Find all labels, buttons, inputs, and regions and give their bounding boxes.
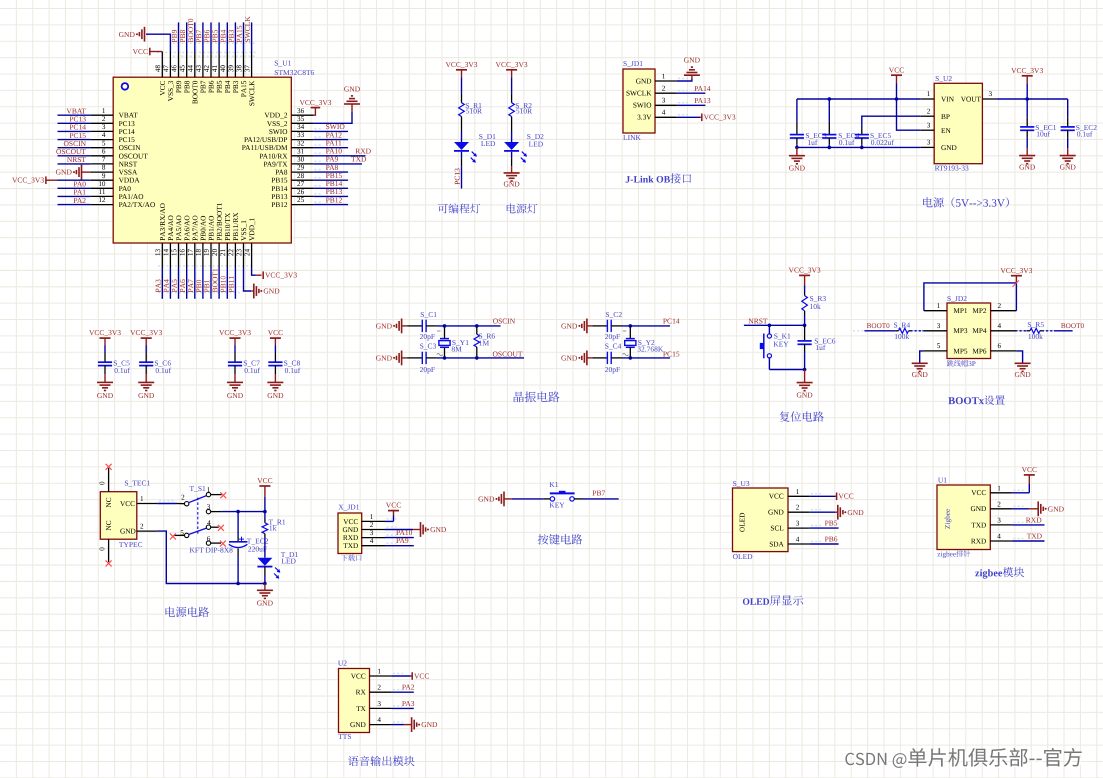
svg-text:2: 2 xyxy=(181,494,185,502)
junction VOUT/VCC_3V3 xyxy=(1025,97,1029,101)
wire net PA0 pin 10 xyxy=(58,187,91,189)
svg-text:GND: GND xyxy=(789,163,806,172)
svg-text:0.1uf: 0.1uf xyxy=(1077,130,1093,139)
svg-text:8: 8 xyxy=(102,164,106,172)
svg-text:3: 3 xyxy=(370,529,374,537)
svg-text:RT9193-33: RT9193-33 xyxy=(935,164,969,173)
wire net SWIO pin 34 xyxy=(314,130,348,132)
wire S_R2 to S_D2 xyxy=(511,132,513,143)
wire net PB5 MCU top xyxy=(218,22,220,51)
svg-text:PA9: PA9 xyxy=(396,536,409,545)
svg-text:4: 4 xyxy=(370,537,374,545)
wire S_EC2 top xyxy=(1067,99,1069,117)
power VCC at X_JD1 pin 1 xyxy=(388,510,399,512)
net label PB1 xyxy=(204,280,209,292)
ground at MCU pin 8 VSSA xyxy=(82,171,91,173)
svg-text:BOOT0: BOOT0 xyxy=(1061,322,1085,330)
X_JD1 pin 1 VCC xyxy=(362,520,385,522)
wire net PB3 MCU top xyxy=(234,22,236,51)
wire net PA15 MCU top xyxy=(243,22,245,51)
MCU pin 17 PA7/AO xyxy=(194,243,196,268)
wire X_JD1 pin2 to ground xyxy=(385,529,413,531)
svg-text:VCC_3V3: VCC_3V3 xyxy=(1000,266,1032,275)
ground at S_JD2 pin 5 xyxy=(912,362,928,364)
svg-text:30: 30 xyxy=(297,156,305,164)
wire PC14 row xyxy=(611,325,622,327)
wire NRST to S_K1 xyxy=(768,325,770,334)
junction VIN/VCC xyxy=(895,97,899,101)
MCU pin 12 PA2/TX/AO xyxy=(90,204,113,206)
wire net PC13 pin 2 xyxy=(58,122,91,124)
svg-text:MP1: MP1 xyxy=(953,306,968,315)
wire TYPEC pin1 to switch xyxy=(157,503,176,505)
ground below S_EC6 xyxy=(797,382,813,384)
svg-text:GND: GND xyxy=(1014,370,1031,379)
svg-text:1k: 1k xyxy=(269,524,277,533)
ground below S_C5 xyxy=(97,381,113,383)
S_U2 pin 3 GND xyxy=(920,146,934,148)
net label PB6 xyxy=(204,30,209,43)
switch T_S1 contact 5 xyxy=(185,533,189,537)
svg-text:RXD: RXD xyxy=(971,536,986,545)
svg-text:GND: GND xyxy=(970,504,986,513)
wire S_U3 pin2 to ground xyxy=(810,511,836,513)
svg-text:GND: GND xyxy=(796,391,813,400)
svg-text:GND: GND xyxy=(120,527,136,536)
wire net PB13 pin 26 xyxy=(314,195,348,197)
power VCC_3V3 at MCU pin 24 VDD_1 xyxy=(262,271,264,279)
S_U2 pin 1 VIN xyxy=(920,98,934,100)
svg-text:3: 3 xyxy=(937,322,941,330)
svg-text:VCC: VCC xyxy=(351,671,366,680)
svg-text:0.022uf: 0.022uf xyxy=(871,138,895,147)
svg-text:VCC_3V3: VCC_3V3 xyxy=(130,328,162,337)
svg-text:PB12: PB12 xyxy=(271,200,288,209)
wire MCU pin 24 to VCC_3V3 xyxy=(252,268,256,275)
svg-text:GND: GND xyxy=(257,598,274,607)
switch T_S1 lever 5-4 xyxy=(189,528,207,534)
wire U1 pin1 to VCC xyxy=(1012,492,1029,494)
junction PC15/crystal xyxy=(629,356,633,360)
no-connect X at T_S1 pin6 xyxy=(220,541,226,547)
svg-text:27: 27 xyxy=(297,180,305,188)
wire net NRST pin 7 xyxy=(58,163,91,165)
resistor S_R2 510R xyxy=(511,93,513,103)
regulator S_U2 body RT9193-33 xyxy=(934,83,982,163)
wire net PA13 xyxy=(677,104,706,106)
svg-text:3: 3 xyxy=(377,700,381,708)
switch T_S1 contact 4 xyxy=(206,525,210,529)
wire T_D1 to bottom rail xyxy=(264,567,266,575)
MCU pin 22 PB11/RX xyxy=(234,243,236,268)
svg-text:GND: GND xyxy=(376,322,393,331)
power VCC_3V3 above S_C5 xyxy=(100,337,111,339)
wire VCC_3V3 to S_R2 xyxy=(511,77,513,93)
ground below S_EC1 xyxy=(1019,155,1035,157)
svg-text:34: 34 xyxy=(297,123,305,131)
svg-text:VCC_3V3: VCC_3V3 xyxy=(299,98,331,107)
svg-text:GND: GND xyxy=(1060,163,1077,172)
power VCC_3V3 at VOUT xyxy=(1022,75,1033,77)
capacitor S_C3 20pF xyxy=(421,352,423,364)
svg-text:0.1uf: 0.1uf xyxy=(285,366,301,375)
svg-text:VCC: VCC xyxy=(386,501,401,510)
wire ground to S_C3 xyxy=(402,357,408,359)
svg-text:GND: GND xyxy=(941,143,957,152)
wire bottom node to ground xyxy=(804,370,806,383)
net label PA7 xyxy=(188,279,193,292)
MCU pin 16 PA6/AO xyxy=(186,243,188,268)
svg-text:2: 2 xyxy=(140,523,144,531)
svg-text:VCC_3V3: VCC_3V3 xyxy=(496,60,528,69)
svg-text:S_C4: S_C4 xyxy=(605,342,622,351)
svg-text:PB6: PB6 xyxy=(825,535,838,544)
power VCC above T_R1 xyxy=(259,485,270,487)
wire ground to K1 xyxy=(504,498,512,500)
title 语音输出模块 xyxy=(348,756,415,766)
svg-text:0.1uf: 0.1uf xyxy=(839,138,855,147)
svg-text:20pF: 20pF xyxy=(420,332,435,341)
svg-text:U2: U2 xyxy=(338,659,347,668)
svg-text:S_JD1: S_JD1 xyxy=(623,59,643,68)
value zigbee排针 xyxy=(938,550,971,558)
svg-text:3: 3 xyxy=(102,123,106,131)
junction LED/bottom rail xyxy=(263,582,267,586)
capacitor S_C6 0.1uf xyxy=(145,353,147,363)
S_JD1 pin 1 GND xyxy=(655,80,677,82)
svg-text:S_R5: S_R5 xyxy=(1027,320,1044,329)
svg-text:STM32C8T6: STM32C8T6 xyxy=(274,68,314,77)
S_TEC1 top NC pin 0 xyxy=(108,468,110,492)
power VCC at MCU pin 48 xyxy=(150,51,163,53)
wire S_JD1 pin 4 to VCC_3V3 xyxy=(677,116,701,118)
title BOOTx设置 xyxy=(948,395,1005,405)
svg-text:U1: U1 xyxy=(938,476,947,485)
svg-text:GND: GND xyxy=(768,508,784,517)
svg-text:GND: GND xyxy=(847,508,864,517)
label Zigbee vertical xyxy=(945,509,952,529)
MCU pin 47 VSS_3 xyxy=(169,52,171,78)
wire VOUT to VCC_3V3 rail xyxy=(997,98,1068,100)
connector U2 body TTS xyxy=(339,669,370,733)
wire U1 pin2 to ground xyxy=(1012,508,1029,510)
MCU pin 5 OSCIN xyxy=(90,147,113,149)
junction OSCIN/crystal xyxy=(443,324,447,328)
svg-text:1: 1 xyxy=(937,302,941,310)
power VCC_3V3 above S_R2 xyxy=(506,69,517,71)
watermark CSDN xyxy=(845,748,1081,768)
junction cap/contact3 xyxy=(236,510,240,514)
svg-text:PA3: PA3 xyxy=(402,699,415,708)
MCU pin 6 OSCOUT xyxy=(90,155,113,157)
wire U2 pin1 to VCC xyxy=(392,675,411,677)
junction OSCOUT/S_R6 xyxy=(475,356,479,360)
MCU pin 10 PA0 xyxy=(90,187,113,189)
svg-text:VCC_3V3: VCC_3V3 xyxy=(704,113,736,122)
svg-text:1: 1 xyxy=(927,90,931,98)
capacitor S_EC5 xyxy=(861,127,863,135)
wire net PB14 pin 27 xyxy=(314,187,348,189)
title J-Link OB接口 xyxy=(626,173,691,183)
power VCC_3V3 at MCU pin 36 VDD_2 xyxy=(314,108,316,116)
capacitor S_EC2 xyxy=(1067,117,1069,127)
wire net PC15 pin 4 xyxy=(58,139,91,141)
svg-text:4: 4 xyxy=(102,131,106,139)
junction OSCIN/S_R6 xyxy=(475,324,479,328)
net label PB11 xyxy=(229,276,234,292)
wire TYPEC pin2 to bottom rail xyxy=(157,531,265,583)
wire GND row xyxy=(797,146,920,148)
net label PB9 xyxy=(172,30,177,42)
wire S_JD2 pin5 to ground xyxy=(920,351,924,363)
svg-text:GND: GND xyxy=(684,56,701,65)
MCU pin 40 PB4 xyxy=(226,52,228,78)
U1 pin 1 VCC xyxy=(990,492,1012,494)
wire S_D2 to ground xyxy=(511,152,513,158)
svg-text:6: 6 xyxy=(207,535,211,543)
capacitor S_C2 20pF xyxy=(606,320,608,332)
MCU pin 11 PA1/AO xyxy=(90,195,113,197)
svg-text:2: 2 xyxy=(377,684,381,692)
wire S_U3 pin1 to VCC xyxy=(810,495,835,497)
svg-text:OSCIN: OSCIN xyxy=(493,316,516,325)
wire net PA8 pin 29 xyxy=(314,171,348,173)
svg-text:32.768K: 32.768K xyxy=(637,345,664,354)
svg-text:VCC_3V3: VCC_3V3 xyxy=(219,328,251,337)
svg-text:1: 1 xyxy=(662,72,666,80)
svg-text:PC15: PC15 xyxy=(663,350,680,359)
MCU pin 1 VBAT xyxy=(90,114,113,116)
svg-text:28: 28 xyxy=(297,172,305,180)
wire BOOT0 left xyxy=(864,330,895,332)
title zigbee模块 xyxy=(975,567,1024,579)
svg-text:NRST: NRST xyxy=(67,155,87,164)
svg-text:33: 33 xyxy=(297,131,305,139)
title 按键电路 xyxy=(538,534,583,545)
jumper S_JD2 body xyxy=(947,303,991,359)
svg-text:PA2/TX/AO: PA2/TX/AO xyxy=(119,200,156,209)
ground at MCU pin 23 VSS_1 xyxy=(253,284,255,299)
wire net PA2 pin 12 xyxy=(58,204,91,206)
svg-text:PA2: PA2 xyxy=(73,196,86,205)
LED T_D1 xyxy=(264,551,266,558)
wire VCC_3V3 to S_C7 xyxy=(234,346,236,353)
svg-text:3: 3 xyxy=(662,97,666,105)
wire net PB15 pin 28 xyxy=(314,179,348,181)
wire S_D1 to PC13 xyxy=(461,152,463,158)
svg-text:VCC_3V3: VCC_3V3 xyxy=(265,271,297,280)
wire net PA2 xyxy=(392,691,414,693)
svg-text:PB7: PB7 xyxy=(592,489,605,498)
wire MCU pin 35 to ground xyxy=(314,112,352,123)
MCU pin 31 PA10/RX xyxy=(291,155,314,157)
wire net PA10 pin 31 xyxy=(314,155,366,157)
svg-text:GND: GND xyxy=(97,391,114,400)
MCU pin 3 PC14 xyxy=(90,130,113,132)
resistor S_R6 1M xyxy=(476,326,478,334)
net label PA5 xyxy=(172,279,177,292)
label OLED vertical xyxy=(740,513,745,532)
svg-text:OLED: OLED xyxy=(733,552,754,561)
capacitor S_C5 0.1uf xyxy=(104,353,106,363)
svg-text:VCC: VCC xyxy=(889,65,904,74)
resistor S_R3 10k xyxy=(804,285,806,291)
wire S_JD1 pin 1 to ground xyxy=(677,79,692,81)
svg-text:EN: EN xyxy=(941,126,951,135)
svg-text:PC14: PC14 xyxy=(663,316,680,325)
wire net SWCLK MCU top xyxy=(251,22,253,51)
S_JD1 pin 4 3.3V xyxy=(655,116,677,118)
MCU pin 29 PA8 xyxy=(291,171,314,173)
svg-text:100k: 100k xyxy=(1028,332,1043,341)
svg-text:4: 4 xyxy=(207,519,211,527)
connector S_JD1 body xyxy=(623,69,655,133)
svg-text:0.1uf: 0.1uf xyxy=(114,366,130,375)
MCU pin 39 PB3 xyxy=(234,52,236,78)
resistor S_R5 100k xyxy=(1016,330,1027,332)
svg-text:6: 6 xyxy=(102,147,106,155)
no-connect X top xyxy=(106,464,112,470)
svg-text:S_R4: S_R4 xyxy=(894,321,911,330)
wire ground to S_C4 xyxy=(587,357,593,359)
capacitor S_C4 20pF xyxy=(606,352,608,364)
MCU pin 42 PB6 xyxy=(210,52,212,78)
svg-text:1uf: 1uf xyxy=(807,138,818,147)
svg-text:VCC: VCC xyxy=(414,671,429,680)
svg-text:4: 4 xyxy=(796,536,800,544)
net label SWCLK xyxy=(245,16,250,42)
svg-text:GND: GND xyxy=(561,322,578,331)
pin mark tilde of S_Y2 xyxy=(623,354,629,356)
svg-text:36: 36 xyxy=(297,107,305,115)
wire MCU pin 47 to ground xyxy=(146,34,170,51)
MCU pin 19 PB1/AO xyxy=(210,243,212,268)
wire net PA1 pin 11 xyxy=(58,195,91,197)
wire S_EC4 top xyxy=(828,99,830,122)
svg-text:1: 1 xyxy=(370,513,374,521)
svg-text:TTS: TTS xyxy=(338,732,351,741)
switch T_S1 contact 2 xyxy=(185,502,189,506)
wire net PA9 at X_JD1 xyxy=(385,545,414,547)
junction GND/EC5 xyxy=(860,146,864,150)
svg-text:S_U3: S_U3 xyxy=(733,479,750,488)
wire OSCOUT row xyxy=(426,357,437,359)
wire contact3 to VCC branch xyxy=(222,511,265,513)
wire net RXD at U1 xyxy=(1012,524,1045,526)
svg-text:RXD: RXD xyxy=(1026,515,1042,524)
net label BOOT1 xyxy=(212,269,217,293)
capacitor S_C1 20pF xyxy=(421,320,423,332)
wire S_C7 to ground xyxy=(234,374,236,382)
net label PB10 xyxy=(221,276,226,292)
net label PB0 xyxy=(196,280,201,292)
wire K1 to PB7 xyxy=(574,498,582,500)
S_JD2 pin 6 MP6 xyxy=(991,350,1017,352)
svg-text:0.1uf: 0.1uf xyxy=(244,366,260,375)
S_JD1 pin 2 SWCLK xyxy=(655,92,677,94)
svg-text:35: 35 xyxy=(297,115,305,123)
capacitor S_EC6 1uf xyxy=(804,325,806,341)
MCU pin 37 SWCLK xyxy=(251,52,253,78)
MCU pin 43 PB7 xyxy=(202,52,204,78)
S_U3 pin 3 SCL xyxy=(788,527,810,529)
MCU pin 46 PB9 xyxy=(178,52,180,78)
wire net PA4 MCU bottom xyxy=(169,268,171,299)
svg-text:KFT DIP-8X8: KFT DIP-8X8 xyxy=(190,545,234,554)
MCU pin 28 PB15 xyxy=(291,179,314,181)
junction NRST/S_K1 xyxy=(768,324,772,328)
capacitor S_C8 0.1uf xyxy=(274,353,276,363)
capacitor S_C7 0.1uf xyxy=(234,353,236,363)
power VCC_3V3 above S_R3 xyxy=(799,274,810,276)
ground at X_JD1 pin 2 xyxy=(420,522,422,537)
MCU pin 32 PA11/USB/DM xyxy=(291,147,314,149)
connector S_U3 body OLED xyxy=(733,488,789,552)
svg-text:MP2: MP2 xyxy=(972,306,987,315)
wire net NRST xyxy=(744,324,805,326)
svg-text:SDA: SDA xyxy=(769,539,784,548)
wire net PA6 MCU bottom xyxy=(186,268,188,299)
capacitor S_EC4 xyxy=(828,122,830,135)
power VCC above S_C8 xyxy=(270,337,281,339)
MCU pin 38 PA15 xyxy=(243,52,245,78)
svg-text:VCC: VCC xyxy=(120,499,135,508)
wire net PA10 at X_JD1 xyxy=(385,537,414,539)
MCU pin 18 PB0/AO xyxy=(202,243,204,268)
svg-text:GND: GND xyxy=(912,370,929,379)
wire net OSCOUT pin 6 xyxy=(58,155,91,157)
net label PA6 xyxy=(180,279,185,292)
wire net PB9 MCU top xyxy=(178,22,180,51)
wire VCC to T_R1 xyxy=(264,497,266,512)
net label PA4 xyxy=(164,279,169,292)
svg-text:GND: GND xyxy=(267,391,284,400)
MCU pin 7 NRST xyxy=(90,163,113,165)
wire net PB12 pin 25 xyxy=(314,204,348,206)
connector U1 body Zigbee xyxy=(937,485,990,550)
connector X_JD1 body xyxy=(338,513,362,554)
ground below S_C7 xyxy=(227,381,243,383)
svg-text:2: 2 xyxy=(370,521,374,529)
svg-text:VCC: VCC xyxy=(838,492,853,501)
wire net PA5 MCU bottom xyxy=(178,268,180,299)
S_TEC1 pin 1 VCC xyxy=(137,503,157,505)
svg-text:20pF: 20pF xyxy=(605,365,620,374)
junction VIN/EC4 xyxy=(828,97,832,101)
ground left of K1 xyxy=(503,492,505,507)
svg-text:TXD: TXD xyxy=(1027,532,1043,541)
svg-text:PB5: PB5 xyxy=(825,519,838,528)
X_JD1 pin 4 TXD xyxy=(362,545,385,547)
svg-text:1: 1 xyxy=(377,668,381,676)
net label PC13 xyxy=(455,168,460,184)
svg-text:VCC: VCC xyxy=(268,328,283,337)
wire net PA3 xyxy=(392,707,414,709)
MCU pin 21 PB10/TX xyxy=(226,243,228,268)
MCU pin 4 PC15 xyxy=(90,139,113,141)
svg-text:LED: LED xyxy=(529,139,544,148)
svg-text:3: 3 xyxy=(796,520,800,528)
wire net PB1 MCU bottom xyxy=(210,268,212,299)
ground below S_C8 xyxy=(267,381,283,383)
svg-text:GND: GND xyxy=(478,495,495,504)
svg-text:510R: 510R xyxy=(466,107,482,116)
S_JD1 pin 3 SWIO xyxy=(655,104,677,106)
svg-text:TYPEC: TYPEC xyxy=(119,540,143,549)
T_S1 pin 1 stub xyxy=(211,494,222,496)
svg-text:MP5: MP5 xyxy=(953,346,968,355)
wire net PA9 pin 30 xyxy=(314,163,362,165)
